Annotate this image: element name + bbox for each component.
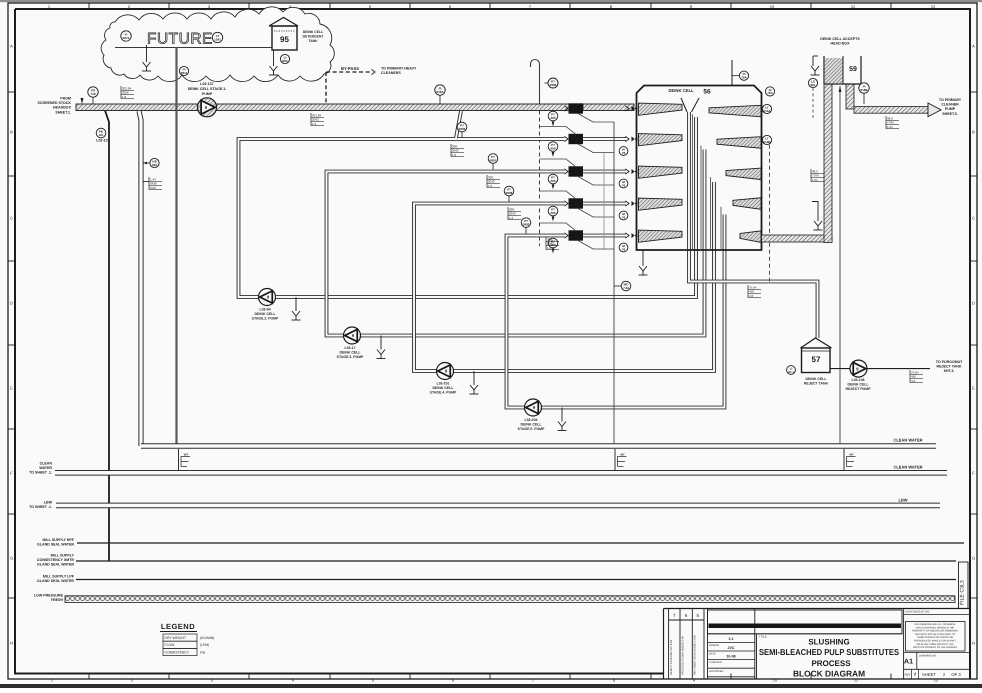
svg-text:DOC/CAD/CUST NO.: DOC/CAD/CUST NO. [905, 611, 930, 614]
svg-text:A: A [972, 44, 975, 49]
svg-text:WT: WT [849, 453, 854, 457]
svg-text:SHEET.1.: SHEET.1. [55, 110, 71, 114]
svg-text:12: 12 [931, 4, 936, 9]
svg-text:DEINK CELL ACCEPTS: DEINK CELL ACCEPTS [820, 37, 860, 41]
svg-text:LEGEND: LEGEND [161, 622, 195, 631]
svg-text:0909: 0909 [523, 222, 530, 226]
svg-text:1.3: 1.3 [452, 153, 457, 157]
svg-text:STAGE.3. PUMP: STAGE.3. PUMP [337, 355, 364, 359]
svg-text:10: 10 [770, 4, 775, 9]
svg-text:JVC: JVC [728, 646, 735, 650]
svg-text:1.3: 1.3 [509, 216, 514, 220]
svg-text:12: 12 [934, 678, 939, 683]
svg-text:79: 79 [622, 151, 626, 155]
svg-text:D: D [972, 301, 975, 306]
svg-text:REV: REV [905, 673, 911, 677]
svg-text:046: 046 [152, 163, 157, 167]
svg-text:REJECT TANK: REJECT TANK [804, 382, 829, 386]
svg-text:916B: 916B [860, 88, 868, 92]
svg-text:STAGE.4. PUMP: STAGE.4. PUMP [430, 391, 457, 395]
svg-text:FROM: FROM [60, 97, 71, 101]
svg-text:FILE C3L3: FILE C3L3 [960, 580, 966, 605]
svg-text:L03-17: L03-17 [344, 346, 355, 350]
svg-text:DEINK CELL: DEINK CELL [433, 386, 455, 390]
svg-text:E: E [10, 386, 13, 391]
svg-text:DEINK CELL: DEINK CELL [340, 351, 362, 355]
svg-text:(LPM): (LPM) [200, 643, 209, 647]
svg-text:79: 79 [622, 247, 626, 251]
svg-text:L02-137: L02-137 [200, 82, 213, 86]
svg-text:TANK: TANK [308, 39, 318, 43]
svg-text:PUMP: PUMP [202, 92, 213, 96]
svg-text:DEINK CELL: DEINK CELL [303, 30, 323, 34]
svg-text:H: H [972, 641, 975, 646]
svg-text:LOW PRESSURE: LOW PRESSURE [34, 594, 64, 598]
svg-text:PUMP: PUMP [945, 107, 956, 111]
svg-text:L03-108: L03-108 [851, 378, 864, 382]
svg-text:961: 961 [810, 83, 815, 87]
svg-text:DEINK CELL: DEINK CELL [806, 377, 828, 381]
svg-text:L03-94: L03-94 [259, 308, 270, 312]
svg-text:OF 3: OF 3 [951, 672, 961, 677]
svg-text:B: B [10, 130, 13, 135]
svg-text:CLEAN WATER: CLEAN WATER [893, 465, 922, 470]
svg-text:0.06: 0.06 [150, 186, 156, 190]
svg-text:L03-204: L03-204 [524, 418, 537, 422]
svg-text:A: A [10, 44, 13, 49]
svg-text:1.51: 1.51 [812, 178, 818, 182]
svg-text:GLAND SEAL WATER: GLAND SEAL WATER [37, 579, 74, 583]
svg-text:CLEANERS: CLEANERS [381, 71, 401, 75]
svg-text:E: E [972, 386, 975, 391]
svg-text:0906: 0906 [550, 83, 557, 87]
svg-text:TO PURGOMAT: TO PURGOMAT [936, 360, 963, 364]
svg-text:A1: A1 [904, 659, 913, 666]
svg-text:SHT.3.: SHT.3. [944, 369, 955, 373]
svg-text:BLOCK DIAGRAM: BLOCK DIAGRAM [793, 669, 865, 679]
svg-text:4.8: 4.8 [749, 294, 754, 298]
svg-text:B: B [972, 130, 975, 135]
svg-text:FUTURE: FUTURE [147, 31, 213, 48]
svg-text:PROCESS: PROCESS [811, 659, 851, 668]
svg-text:79: 79 [622, 183, 626, 187]
svg-text:56: 56 [703, 89, 711, 96]
svg-text:C: C [972, 216, 975, 221]
svg-text:CLEAN WATER: CLEAN WATER [893, 438, 922, 443]
svg-text:090: 090 [550, 116, 555, 120]
svg-text:HEADBOX: HEADBOX [53, 106, 72, 110]
svg-text:916A: 916A [436, 90, 444, 94]
svg-text:CHECKED: CHECKED [709, 661, 722, 664]
svg-text:(KG/MIN): (KG/MIN) [200, 636, 214, 640]
svg-text:121: 121 [98, 133, 103, 137]
svg-text:1241: 1241 [214, 37, 221, 41]
svg-text:REJECT PUMP: REJECT PUMP [846, 387, 872, 391]
svg-text:L03-201: L03-201 [436, 382, 449, 386]
svg-text:REV SHEET DENR ADDED 11-98: REV SHEET DENR ADDED 11-98 [693, 635, 696, 675]
svg-text:MILL SUPPLY LPF: MILL SUPPLY LPF [43, 575, 75, 579]
svg-text:WT: WT [184, 453, 189, 457]
svg-text:1.51: 1.51 [887, 125, 893, 129]
svg-text:1.3: 1.3 [488, 184, 493, 188]
svg-text:DEINK CELL: DEINK CELL [668, 88, 694, 93]
svg-text:G: G [10, 556, 13, 561]
svg-text:FLOW: FLOW [165, 643, 176, 647]
svg-text:DEINK CELL: DEINK CELL [848, 383, 870, 387]
svg-text:090: 090 [550, 146, 555, 150]
svg-text:1.3: 1.3 [312, 122, 317, 126]
svg-text:57: 57 [812, 355, 821, 364]
svg-text:1.8: 1.8 [122, 95, 127, 99]
svg-text:090: 090 [550, 211, 555, 215]
svg-text:DEINK CELL: DEINK CELL [255, 312, 277, 316]
svg-text:1:1: 1:1 [728, 637, 733, 641]
svg-text:014A: 014A [763, 109, 771, 113]
svg-text:TO SHEET .1.: TO SHEET .1. [29, 505, 52, 509]
svg-text:WATER: WATER [39, 466, 52, 470]
svg-text:DATE: DATE [709, 653, 716, 656]
svg-text:CLEANER: CLEANER [941, 103, 959, 107]
svg-text:89A: 89A [282, 59, 288, 63]
svg-text:D: D [10, 301, 13, 306]
svg-text:10: 10 [773, 678, 778, 683]
svg-text:MILL SUPPLY HPF: MILL SUPPLY HPF [43, 538, 75, 542]
svg-text:TITLE: TITLE [759, 635, 767, 639]
svg-text:79: 79 [622, 215, 626, 219]
svg-text:SCREENED STOCK: SCREENED STOCK [38, 101, 72, 105]
svg-text:014B: 014B [763, 140, 771, 144]
svg-text:4.2: 4.2 [911, 379, 916, 383]
svg-text:G: G [972, 556, 975, 561]
svg-text:H: H [10, 641, 13, 646]
svg-text:GLAND SEAL WATER: GLAND SEAL WATER [37, 543, 74, 547]
svg-text:79A: 79A [741, 76, 747, 80]
svg-text:21.1: 21.1 [788, 370, 794, 374]
svg-text:(%): (%) [200, 650, 205, 654]
svg-text:SHEET.3.: SHEET.3. [942, 112, 958, 116]
svg-text:CONSISTENCY: CONSISTENCY [165, 650, 190, 654]
svg-text:SLUSHING: SLUSHING [808, 638, 849, 647]
svg-text:10-98: 10-98 [726, 654, 735, 658]
svg-text:0908: 0908 [506, 191, 513, 195]
svg-text:DRAWING NO.: DRAWING NO. [919, 655, 937, 658]
svg-text:090: 090 [550, 179, 555, 183]
svg-text:CONSISTENCY XMTR: CONSISTENCY XMTR [37, 558, 74, 562]
svg-text:DRAWN: DRAWN [709, 644, 719, 647]
svg-text:FRESH: FRESH [51, 598, 64, 602]
svg-text:PROG DAL FLOWS ADDED 2-99: PROG DAL FLOWS ADDED 2-99 [682, 636, 685, 675]
svg-text:APPROVED: APPROVED [709, 670, 724, 673]
svg-text:0911: 0911 [181, 71, 188, 75]
svg-text:REJECT TANK: REJECT TANK [937, 365, 962, 369]
svg-text:WT: WT [620, 453, 625, 457]
svg-text:DEINK CELL: DEINK CELL [521, 423, 543, 427]
svg-text:BY-PASS: BY-PASS [341, 66, 359, 71]
svg-text:7.64: 7.64 [623, 286, 629, 290]
svg-text:GLAND SEAL WATER: GLAND SEAL WATER [37, 563, 74, 567]
svg-text:79A: 79A [767, 91, 773, 95]
svg-text:0974: 0974 [123, 36, 130, 40]
svg-text:95: 95 [280, 35, 289, 44]
svg-text:0907: 0907 [490, 158, 497, 162]
svg-text:L02-121: L02-121 [96, 139, 109, 143]
svg-text:REJECT TANK ADD JVC 8-99: REJECT TANK ADD JVC 8-99 [670, 639, 673, 675]
svg-text:STAGE.5. PUMP: STAGE.5. PUMP [518, 427, 545, 431]
svg-text:SHEET: SHEET [922, 672, 936, 677]
svg-text:WRITTEN CONSENT OF THE OWNERS: WRITTEN CONSENT OF THE OWNERS [913, 646, 957, 649]
svg-text:59: 59 [849, 66, 857, 73]
svg-text:SEMI-BLEACHED PULP SUBSTITUTES: SEMI-BLEACHED PULP SUBSTITUTES [759, 647, 899, 657]
svg-text:LBW: LBW [898, 498, 907, 503]
svg-text:LBW: LBW [44, 501, 53, 505]
svg-text:0905: 0905 [459, 127, 466, 131]
svg-text:TO PRIMARY HEAVY: TO PRIMARY HEAVY [381, 67, 417, 71]
svg-text:HEAD BOX: HEAD BOX [831, 42, 851, 46]
svg-text:C: C [10, 216, 13, 221]
svg-text:TO SHEET .1.: TO SHEET .1. [29, 471, 52, 475]
svg-text:DRY WEIGHT: DRY WEIGHT [165, 636, 187, 640]
svg-text:CLEAN: CLEAN [40, 462, 53, 466]
svg-text:TO PRIMARY: TO PRIMARY [939, 98, 962, 102]
svg-text:1.2: 1.2 [547, 246, 552, 250]
svg-text:718: 718 [90, 92, 95, 96]
svg-text:DEINK CELL STAGE.1.: DEINK CELL STAGE.1. [188, 87, 227, 91]
svg-text:DETERGENT: DETERGENT [303, 35, 325, 39]
svg-text:MILL SUPPLY: MILL SUPPLY [51, 554, 75, 558]
svg-text:STAGE.2. PUMP: STAGE.2. PUMP [252, 317, 279, 321]
